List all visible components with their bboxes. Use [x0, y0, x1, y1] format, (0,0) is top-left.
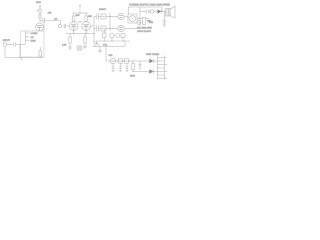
- node top rail: [128, 6, 162, 8]
- svg-text:.02: .02: [54, 18, 58, 21]
- wire: [4, 46, 6, 57]
- wire: [44, 20, 60, 22]
- choke L1: [119, 59, 123, 63]
- svg-text:6SJ7: 6SJ7: [36, 1, 42, 4]
- wire: [98, 28, 101, 30]
- potentiometer arrow: [96, 42, 99, 46]
- ground: [112, 71, 115, 72]
- diode D1: [149, 59, 153, 63]
- wire between tubes: [78, 22, 82, 23]
- wire B+ down: [105, 47, 107, 62]
- lamp P1: [77, 45, 82, 50]
- wire rail drop: [128, 7, 130, 14]
- wire: [5, 57, 44, 59]
- svg-text:350V: 350V: [130, 75, 136, 78]
- ground: [83, 47, 87, 49]
- wire: [124, 17, 128, 19]
- svg-text:6N7: 6N7: [76, 14, 81, 17]
- resistor R11: [121, 34, 125, 38]
- wire grid leak: [43, 21, 45, 32]
- svg-text:VOL: VOL: [103, 44, 108, 47]
- capacitor C4: [97, 14, 99, 20]
- capacitor C12: [147, 10, 149, 14]
- lamp P2: [150, 10, 153, 13]
- transformer T1: [158, 56, 165, 80]
- capacitor C5: [97, 26, 99, 32]
- wire: [39, 47, 41, 58]
- wire B+ stub: [79, 6, 81, 14]
- wire: [39, 18, 41, 23]
- svg-text:47K: 47K: [48, 12, 52, 15]
- speaker SP1: [170, 6, 175, 18]
- wire: [124, 41, 126, 47]
- wire: [98, 16, 101, 18]
- capacitor C1b: [39, 15, 41, 18]
- wire: [163, 21, 165, 24]
- ground tick: [21, 58, 23, 60]
- resistor R9: [101, 26, 106, 31]
- top terminal: [39, 5, 41, 9]
- wire cathode rail: [66, 33, 94, 35]
- wire: [103, 29, 105, 42]
- svg-text:5Y3: 5Y3: [109, 54, 114, 57]
- capacitor C1: [14, 43, 16, 47]
- capacitor C11: [138, 61, 141, 67]
- svg-text:6.3V: 6.3V: [62, 44, 67, 47]
- capacitor C8: [116, 34, 120, 38]
- wire: [39, 13, 41, 15]
- capacitor C3: [64, 24, 66, 28]
- svg-text:CAPS IN MFD: CAPS IN MFD: [137, 30, 152, 33]
- wire plate out: [40, 20, 42, 22]
- potentiometer R13: [137, 21, 141, 25]
- choke L2: [125, 59, 129, 63]
- wire bus: [109, 13, 111, 31]
- ground: [139, 68, 142, 69]
- ground: [68, 47, 72, 49]
- wire: [7, 44, 13, 46]
- shield box: [21, 31, 45, 57]
- tube V5: [110, 58, 116, 64]
- wire: [106, 16, 118, 18]
- resistor R2: [39, 51, 41, 57]
- input jack J1: [3, 43, 6, 46]
- resistor R8: [101, 14, 106, 19]
- wire: [106, 28, 118, 30]
- diode D2: [149, 69, 153, 73]
- wire bus A: [96, 40, 130, 42]
- grid cap node: [58, 25, 61, 28]
- wire: [90, 17, 94, 47]
- tube V1: [36, 23, 44, 31]
- diode D3: [158, 9, 162, 13]
- capacitor C9: [111, 64, 114, 70]
- resistor R7: [84, 34, 86, 38]
- wire: [16, 45, 20, 58]
- meter M1: [128, 14, 137, 23]
- wire: [154, 11, 158, 13]
- ground: [98, 47, 102, 53]
- wire: [133, 71, 149, 73]
- svg-text:1 MEG: 1 MEG: [31, 32, 38, 35]
- svg-text:INPUT: INPUT: [3, 39, 10, 42]
- wire: [148, 11, 150, 13]
- wire: [137, 18, 142, 20]
- ground: [126, 71, 129, 72]
- resistor R12: [132, 61, 134, 64]
- svg-text:.05: .05: [31, 36, 35, 39]
- capacitor C6: [162, 20, 166, 21]
- resistor R5: [85, 13, 87, 16]
- wire: [61, 21, 64, 27]
- resistor R4: [73, 13, 75, 16]
- tube V2b: [82, 22, 91, 31]
- wire: [163, 12, 165, 20]
- wire: [139, 10, 141, 29]
- output transformer T2: [166, 9, 171, 17]
- svg-text:6V6GT: 6V6GT: [99, 8, 107, 11]
- ground: [119, 71, 122, 72]
- wire: [124, 28, 140, 30]
- junction dots: [117, 60, 118, 61]
- tube V2a: [69, 22, 78, 31]
- choke L3: [142, 18, 145, 25]
- svg-text:ALL RES 1/2W: ALL RES 1/2W: [137, 27, 153, 30]
- terminal strip TS1: [26, 31, 30, 44]
- capacitor C7: [110, 33, 115, 38]
- svg-text:6N7: 6N7: [88, 15, 93, 18]
- wire: [95, 41, 97, 47]
- wire: [161, 11, 165, 13]
- resistor R1: [39, 9, 41, 13]
- wire: [146, 18, 149, 20]
- wire bus B: [93, 46, 125, 48]
- capacitor C10: [119, 63, 122, 69]
- resistor R10: [103, 33, 107, 38]
- junction: [19, 57, 20, 58]
- wire: [20, 44, 25, 46]
- capacitor C10b: [125, 63, 128, 69]
- wire PSU row: [106, 60, 149, 62]
- svg-text:6X5: 6X5: [149, 21, 154, 24]
- wire row1: [94, 16, 96, 18]
- wire: [140, 11, 146, 13]
- tube V3: [118, 13, 124, 19]
- wire: [66, 25, 70, 27]
- ground: [163, 24, 167, 26]
- node B+ rail: [73, 12, 89, 14]
- wire: [139, 7, 141, 10]
- resistor R6: [69, 34, 71, 38]
- svg-text:POWER SUPPLY AND AMPLIFIER: POWER SUPPLY AND AMPLIFIER: [129, 4, 170, 7]
- svg-text:470K: 470K: [31, 40, 37, 43]
- capacitor C2: [43, 18, 45, 23]
- wire row2: [94, 28, 96, 30]
- wire rail end drop: [161, 7, 163, 12]
- tube V4: [118, 25, 124, 31]
